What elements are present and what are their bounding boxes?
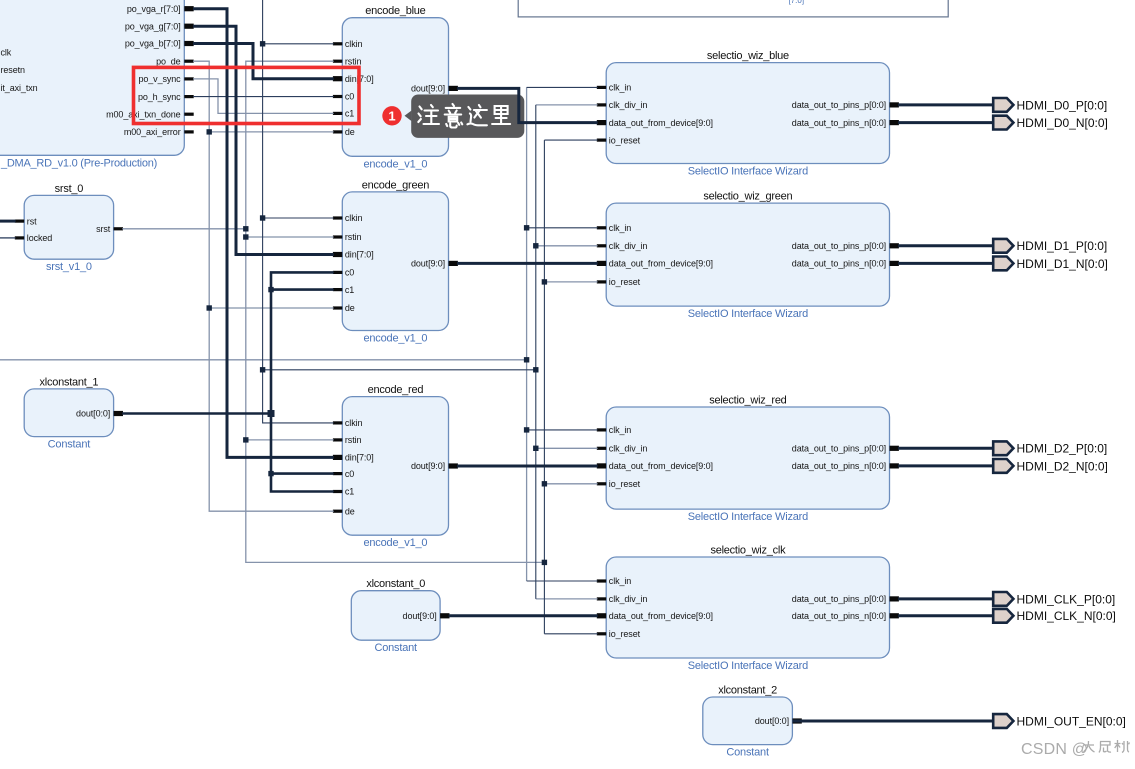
wire po_vga_r bus to encode_red din (193, 9, 334, 458)
junction const / green c1 (268, 287, 273, 292)
block xlconstant_0 (351, 578, 449, 654)
svg-text:locked: locked (27, 233, 53, 243)
pin data_out_from_device[9:0] (597, 463, 606, 468)
wire srst branch to encode_green rstin (246, 236, 334, 238)
svg-text:c1: c1 (345, 109, 354, 119)
output port HDMI_CLK_N (993, 609, 1116, 623)
pin data_out_to_pins_p[0:0] (890, 596, 899, 601)
output port HDMI_D1_P (993, 239, 1107, 253)
svg-text:c0: c0 (345, 268, 354, 278)
svg-text:po_vga_r[7:0]: po_vga_r[7:0] (127, 4, 181, 14)
pin dout[0:0] (114, 411, 123, 416)
pin po_vga_g[7:0] (184, 24, 193, 29)
pin clk_in (597, 579, 606, 582)
pin clkin (333, 421, 342, 424)
block selectio_wiz_clk (597, 545, 899, 673)
svg-text:HDMI_D0_P[0:0]: HDMI_D0_P[0:0] (1017, 98, 1108, 112)
block encode_blue (333, 5, 458, 170)
svg-text:it_axi_txn: it_axi_txn (1, 83, 38, 93)
junction srst / red rstin (243, 437, 248, 442)
pin data_out_to_pins_p[0:0] (890, 102, 899, 107)
wire io_reset vertical (543, 140, 545, 634)
block xlconstant_2 (703, 685, 802, 759)
wire io_reset stub selectio_wiz_blue (544, 139, 597, 141)
svg-text:de: de (345, 303, 355, 313)
pin clk_in (597, 226, 606, 229)
svg-text:dout[0:0]: dout[0:0] (755, 716, 789, 726)
pin po_v_sync (184, 77, 193, 80)
wire encode_blue dout bus (over tooltip) (457, 88, 597, 122)
svg-text:po_de: po_de (156, 56, 181, 66)
pin dout[9:0] (440, 613, 449, 618)
svg-text:Constant: Constant (726, 747, 769, 759)
pin rst (15, 220, 24, 223)
pin c0 (333, 95, 342, 98)
svg-text:SelectIO Interface Wizard: SelectIO Interface Wizard (688, 660, 808, 672)
wire port bus at y=263.4 (898, 262, 993, 265)
pin data_out_to_pins_p[0:0] (890, 446, 899, 451)
svg-text:data_out_to_pins_p[0:0]: data_out_to_pins_p[0:0] (792, 594, 886, 604)
wire po_vga_b bus to encode_blue din (193, 44, 334, 79)
wire clk_div_in stub selectio_wiz_green (536, 245, 598, 247)
svg-text:CSDN @: CSDN @ (1021, 741, 1088, 758)
svg-text:io_reset: io_reset (609, 479, 641, 489)
pin rstin (333, 60, 342, 63)
wire const net vertical c0/c1 (271, 272, 334, 491)
block encode_red (333, 384, 458, 549)
svg-text:data_out_to_pins_p[0:0]: data_out_to_pins_p[0:0] (792, 100, 886, 110)
pin de (333, 130, 342, 133)
svg-text:clk_in: clk_in (609, 83, 632, 93)
wire po_de branch to encode_blue de (209, 131, 334, 133)
wire encode_red dout bus (457, 465, 597, 468)
svg-text:xlconstant_2: xlconstant_2 (718, 685, 777, 697)
wire io_reset stub selectio_wiz_clk (544, 633, 597, 635)
junction srst / source (243, 226, 248, 231)
svg-text:HDMI_D1_P[0:0]: HDMI_D1_P[0:0] (1017, 239, 1108, 253)
svg-text:data_out_to_pins_n[0:0]: data_out_to_pins_n[0:0] (792, 461, 886, 471)
block selectio_wiz_green (597, 191, 899, 321)
svg-text:resetn: resetn (1, 65, 26, 75)
junction clk_div / link (533, 367, 538, 372)
svg-text:encode_blue: encode_blue (365, 5, 425, 17)
pin clk_div_in (597, 244, 606, 247)
svg-text:clk: clk (1, 48, 12, 58)
wire srst net vertical (246, 61, 542, 562)
svg-text:data_out_from_device[9:0]: data_out_from_device[9:0] (609, 461, 713, 471)
pin po_de (184, 60, 193, 63)
svg-text:rstin: rstin (345, 232, 362, 242)
pin clk_div_in (597, 103, 606, 106)
svg-text:clk_div_in: clk_div_in (609, 241, 648, 251)
wire xlconstant_2 to HDMI_OUT_EN bus (792, 720, 993, 723)
svg-text:dout[9:0]: dout[9:0] (403, 611, 437, 621)
pin dout[9:0] (449, 261, 458, 266)
svg-text:HDMI_D1_N[0:0]: HDMI_D1_N[0:0] (1017, 257, 1108, 271)
pin clk_div_in (597, 597, 606, 600)
pin de (333, 510, 342, 513)
annotation badge circle 1 (382, 106, 401, 125)
svg-text:po_vga_g[7:0]: po_vga_g[7:0] (125, 21, 181, 31)
svg-text:io_reset: io_reset (609, 135, 641, 145)
svg-text:data_out_to_pins_p[0:0]: data_out_to_pins_p[0:0] (792, 444, 886, 454)
wire port bus at y=465.9 (898, 464, 993, 467)
svg-text:dout[0:0]: dout[0:0] (76, 409, 110, 419)
pin m00_axi_error (184, 130, 193, 133)
block top (cut off at top edge) (518, 0, 948, 17)
wire po_v_sync to encode_blue c1 (193, 79, 334, 114)
svg-text:Constant: Constant (48, 439, 91, 451)
svg-text:data_out_from_device[9:0]: data_out_from_device[9:0] (609, 259, 713, 269)
pin dout[9:0] (449, 463, 458, 468)
output port HDMI_D0_P (993, 98, 1107, 112)
svg-text:encode_green: encode_green (362, 179, 429, 191)
wire clk_div_in stub selectio_wiz_clk (536, 598, 598, 600)
annotation red rectangle (134, 67, 360, 123)
pin din[7:0] (333, 76, 342, 81)
wire pixel clk vertical to encoders (263, 0, 334, 423)
svg-text:srst: srst (96, 224, 111, 234)
pin clk_in (597, 428, 606, 431)
svg-text:clkin: clkin (345, 39, 363, 49)
wire port bus at y=245.8 (898, 244, 993, 247)
svg-text:HDMI_OUT_EN[0:0]: HDMI_OUT_EN[0:0] (1017, 714, 1126, 728)
wire io_reset stub selectio_wiz_green (544, 281, 597, 283)
svg-text:HDMI_CLK_P[0:0]: HDMI_CLK_P[0:0] (1017, 592, 1116, 606)
svg-text:srst_v1_0: srst_v1_0 (46, 261, 92, 273)
wire io_reset stub selectio_wiz_red (544, 483, 597, 485)
pin dout[9:0] (449, 86, 458, 91)
svg-text:SelectIO Interface Wizard: SelectIO Interface Wizard (688, 308, 808, 320)
svg-text:data_out_from_device[9:0]: data_out_from_device[9:0] (609, 611, 713, 621)
svg-text:HDMI_CLK_N[0:0]: HDMI_CLK_N[0:0] (1017, 609, 1116, 623)
pin io_reset (597, 482, 606, 485)
block encode_green (333, 179, 458, 344)
svg-text:clk_div_in: clk_div_in (609, 594, 648, 604)
wire port bus at y=122.6 (898, 121, 993, 124)
svg-text:m00_axi_txn_done: m00_axi_txn_done (106, 109, 181, 119)
svg-text:SelectIO Interface Wizard: SelectIO Interface Wizard (688, 166, 808, 178)
pin c0 (333, 271, 342, 274)
pin io_reset (597, 632, 606, 635)
annotation tooltip bubble (405, 95, 525, 138)
pin c1 (333, 112, 342, 115)
junction clk_div / green (533, 243, 538, 248)
junction io_reset / srst link (542, 560, 547, 565)
junction const source (268, 410, 275, 417)
wire const branch encode_green c1 (271, 288, 334, 291)
pin clkin (333, 216, 342, 219)
svg-text:de: de (345, 127, 355, 137)
pin data_out_to_pins_n[0:0] (890, 261, 899, 266)
pin io_reset (597, 139, 606, 142)
wire po_de branch to encode_green de (209, 307, 334, 309)
pin data_out_from_device[9:0] (597, 261, 606, 266)
wire clk5x vertical (526, 87, 528, 581)
svg-text:selectio_wiz_green: selectio_wiz_green (703, 191, 792, 203)
svg-text:[7:0]: [7:0] (789, 0, 805, 5)
svg-text:rstin: rstin (345, 435, 362, 445)
junction clk5x / source (524, 357, 529, 362)
junction const / red c0 (268, 471, 273, 476)
svg-text:m00_axi_error: m00_axi_error (124, 127, 181, 137)
svg-text:encode_v1_0: encode_v1_0 (363, 537, 427, 549)
wire po_de net (de distribution) (193, 61, 334, 511)
pin data_out_from_device[9:0] (597, 120, 606, 125)
junction pixel clk / green clkin (260, 215, 265, 220)
block xlconstant_1 (24, 376, 123, 450)
output port HDMI_D1_N (993, 257, 1108, 271)
pin io_reset (597, 280, 606, 283)
wire clk_div vertical (535, 105, 537, 599)
svg-text:clk_in: clk_in (609, 576, 632, 586)
svg-text:data_out_to_pins_p[0:0]: data_out_to_pins_p[0:0] (792, 241, 886, 251)
block selectio_wiz_red (597, 395, 899, 524)
svg-text:c1: c1 (345, 487, 354, 497)
wire port bus at y=448.3 (898, 447, 993, 450)
pin rstin (333, 235, 342, 238)
svg-text:_DMA_RD_v1.0 (Pre-Production): _DMA_RD_v1.0 (Pre-Production) (0, 158, 157, 170)
junction clk_div / red (533, 446, 538, 451)
pin po_vga_b[7:0] (184, 41, 193, 46)
wire po_h_sync to encode_blue c0 (193, 96, 334, 98)
wire port bus at y=615.8 (898, 614, 993, 617)
wire rst input bus (0, 220, 16, 223)
svg-text:Constant: Constant (374, 642, 417, 654)
pin srst (114, 227, 123, 230)
pin po_h_sync (184, 95, 193, 98)
pin din[7:0] (333, 252, 342, 257)
junction io_reset / green (542, 279, 547, 284)
svg-text:HDMI_D2_N[0:0]: HDMI_D2_N[0:0] (1017, 459, 1108, 473)
svg-text:c0: c0 (345, 469, 354, 479)
svg-text:data_out_from_device[9:0]: data_out_from_device[9:0] (609, 118, 713, 128)
pin data_out_to_pins_n[0:0] (890, 463, 899, 468)
svg-text:rst: rst (27, 216, 37, 226)
svg-text:io_reset: io_reset (609, 629, 641, 639)
svg-text:HDMI_D0_N[0:0]: HDMI_D0_N[0:0] (1017, 116, 1108, 130)
svg-text:clkin: clkin (345, 213, 363, 223)
svg-text:data_out_to_pins_n[0:0]: data_out_to_pins_n[0:0] (792, 118, 886, 128)
junction po_de / green de (207, 305, 212, 310)
junction po_de / blue de (207, 129, 212, 134)
svg-text:din[7:0]: din[7:0] (345, 250, 374, 260)
svg-text:selectio_wiz_red: selectio_wiz_red (709, 395, 786, 407)
wire clk_div_in stub selectio_wiz_red (536, 447, 598, 449)
svg-text:c1: c1 (345, 285, 354, 295)
svg-text:clk_div_in: clk_div_in (609, 100, 648, 110)
wire clk_div_in stub selectio_wiz_blue (536, 104, 598, 106)
wire xlconstant_1 dout bus (122, 412, 271, 415)
pin clkin (333, 42, 342, 45)
wire clk5x source from left (0, 359, 527, 361)
wire po_vga_g bus to encode_green din (193, 26, 334, 254)
pin data_out_to_pins_n[0:0] (890, 613, 899, 618)
pin data_out_to_pins_p[0:0] (890, 243, 899, 248)
output port HDMI_D2_N (993, 459, 1108, 473)
wire pixel clk branch encode_green clkin (263, 217, 334, 219)
junction io_reset / red (542, 481, 547, 486)
svg-text:din[7:0]: din[7:0] (345, 453, 374, 463)
svg-text:1: 1 (388, 108, 395, 123)
svg-text:selectio_wiz_clk: selectio_wiz_clk (710, 545, 786, 557)
pin c1 (333, 490, 342, 493)
svg-text:dout[9:0]: dout[9:0] (411, 461, 445, 471)
output port HDMI_OUT_EN (993, 714, 1126, 728)
svg-text:clkin: clkin (345, 418, 363, 428)
block selectio_wiz_blue (597, 50, 899, 177)
pin c0 (333, 472, 342, 475)
wire pixel clk to clk_div link (263, 369, 536, 371)
junction srst / green rstin (243, 234, 248, 239)
svg-text:data_out_to_pins_n[0:0]: data_out_to_pins_n[0:0] (792, 259, 886, 269)
pin dout[0:0] (792, 718, 801, 723)
wire srst_0 output wire (122, 228, 246, 230)
svg-text:dout[9:0]: dout[9:0] (411, 259, 445, 269)
watermark CSDN @大屁桃 (1021, 740, 1130, 758)
pin clk_in (597, 86, 606, 89)
wire srst branch to encode_red rstin (246, 439, 334, 441)
svg-text:po_h_sync: po_h_sync (138, 92, 181, 102)
svg-text:srst_0: srst_0 (55, 183, 84, 195)
pin c1 (333, 288, 342, 291)
svg-text:po_vga_b[7:0]: po_vga_b[7:0] (125, 39, 181, 49)
svg-text:encode_red: encode_red (368, 384, 424, 396)
svg-text:de: de (345, 506, 355, 516)
svg-text:dout[9:0]: dout[9:0] (411, 84, 445, 94)
pin m00_axi_txn_done (184, 113, 193, 116)
pin clk_div_in (597, 447, 606, 450)
svg-text:clk_in: clk_in (609, 223, 632, 233)
output port HDMI_CLK_P (993, 592, 1115, 606)
wire xlconstant_0 dout bus (449, 614, 598, 617)
wire clk_in stub selectio_wiz_green (527, 227, 598, 229)
pin rstin (333, 438, 342, 441)
svg-text:encode_v1_0: encode_v1_0 (363, 333, 427, 345)
pin din[7:0] (333, 455, 342, 460)
svg-text:io_reset: io_reset (609, 277, 641, 287)
wire clk_in stub selectio_wiz_red (527, 429, 598, 431)
output port HDMI_D0_N (993, 116, 1108, 130)
tooltip text 注意这里 (drawn strokes) (418, 104, 510, 128)
block AXI_DMA_RD (cut off at left) (0, 0, 194, 170)
svg-text:clk_in: clk_in (609, 425, 632, 435)
wire port bus at y=598.9 (898, 597, 993, 600)
pin de (333, 306, 342, 309)
svg-text:xlconstant_0: xlconstant_0 (366, 578, 425, 590)
pin data_out_to_pins_n[0:0] (890, 120, 899, 125)
pin locked (15, 236, 24, 239)
wire encode_green dout bus (457, 262, 597, 265)
junction pixel clk / blue clkin (260, 41, 265, 46)
junction clk5x / green (524, 225, 529, 230)
pin data_out_from_device[9:0] (597, 613, 606, 618)
svg-text:selectio_wiz_blue: selectio_wiz_blue (707, 50, 789, 62)
block srst_0 (15, 183, 123, 273)
wire port bus at y=104.9 (898, 103, 993, 106)
svg-text:encode_v1_0: encode_v1_0 (363, 158, 427, 170)
junction pixel clk / clk_div link (260, 367, 265, 372)
wire pixel clk branch encode_blue clkin (263, 43, 334, 45)
junction clk5x / red (524, 427, 529, 432)
pin po_vga_r[7:0] (184, 6, 193, 11)
wire const branch encode_red c0 (271, 472, 334, 475)
wire locked input wire (0, 237, 16, 239)
output port HDMI_D2_P (993, 441, 1107, 455)
svg-text:po_v_sync: po_v_sync (138, 74, 181, 84)
svg-text:clk_div_in: clk_div_in (609, 444, 648, 454)
svg-text:data_out_to_pins_n[0:0]: data_out_to_pins_n[0:0] (792, 611, 886, 621)
svg-text:rstin: rstin (345, 56, 362, 66)
wire clk_in stub selectio_wiz_blue (527, 86, 598, 88)
svg-text:c0: c0 (345, 92, 354, 102)
wire clk_in stub selectio_wiz_clk (527, 580, 598, 582)
svg-text:xlconstant_1: xlconstant_1 (40, 376, 99, 388)
svg-text:SelectIO Interface Wizard: SelectIO Interface Wizard (688, 511, 808, 523)
svg-text:HDMI_D2_P[0:0]: HDMI_D2_P[0:0] (1017, 442, 1108, 456)
